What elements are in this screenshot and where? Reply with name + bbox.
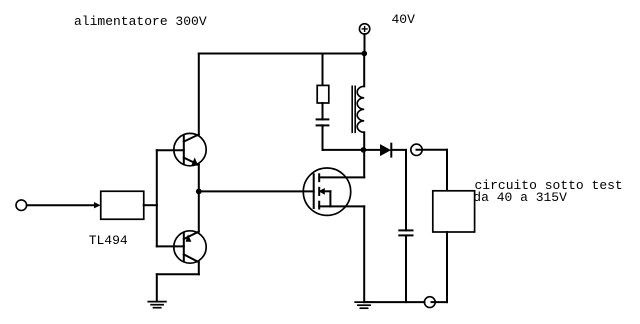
wire C1 bottom stem: [322, 125, 324, 149]
terminal output top: [411, 144, 422, 155]
wire gate lead: [199, 190, 314, 192]
mosfet Q3: [303, 168, 364, 215]
wire bottom rail: [364, 301, 424, 303]
wire source down: [363, 206, 365, 302]
ground left: [148, 302, 166, 308]
inductor L1: [357, 86, 364, 132]
capacitor C1 (snubber): [317, 119, 329, 125]
wire drain up: [363, 150, 365, 178]
svg-text:40V: 40V: [392, 12, 416, 27]
wire Q2 base lead: [157, 245, 184, 247]
terminal input: [16, 200, 27, 211]
wire base bus: [156, 150, 158, 246]
wire RC to diode node: [323, 149, 364, 151]
wire down to test box: [446, 150, 448, 191]
wire diode anode: [363, 149, 380, 151]
node diode junction: [361, 147, 367, 153]
wire top rail: [199, 53, 364, 55]
wire C2 bottom stem: [405, 235, 407, 302]
diode D1: [380, 144, 391, 157]
box U1 TL494: [101, 191, 144, 219]
wire TL494 output: [144, 204, 157, 206]
wire inductor bottom stem: [363, 132, 365, 150]
box circuito sotto test: [433, 191, 475, 232]
capacitor C2 (output): [399, 230, 412, 235]
node gate junction: [196, 189, 202, 195]
node top junction: [362, 51, 368, 57]
terminal +40V: [359, 24, 369, 34]
wire input: [27, 204, 96, 206]
wire inductor top stem: [363, 54, 365, 87]
wire Q1 collector: [198, 54, 200, 135]
svg-text:alimentatore 300V: alimentatore 300V: [74, 14, 207, 29]
wire bottom right corner: [432, 301, 448, 303]
wire Q1 base lead: [157, 149, 184, 151]
wire RC branch top stem: [322, 54, 324, 86]
arrow input: [94, 202, 101, 208]
wire test box bottom: [446, 232, 448, 302]
wire output cap branch: [405, 150, 407, 231]
terminal output bottom: [424, 297, 435, 308]
resistor R1: [317, 85, 329, 103]
wire Q2 collector to ground: [198, 262, 200, 274]
wire diode cathode: [391, 149, 406, 151]
wire emitter bus (Q1 emitter to Q2 emitter): [198, 165, 200, 232]
wire R to C: [322, 103, 324, 119]
ground right: [355, 302, 373, 308]
wire output top right: [417, 149, 448, 151]
wire inner tick bottom terminal: [432, 301, 436, 303]
transistor Q1 (NPN): [174, 133, 206, 165]
svg-text:da 40 a 315V: da 40 a 315V: [473, 190, 567, 205]
wire 40V stem: [364, 34, 366, 53]
transistor Q2 (PNP): [174, 231, 206, 263]
inductor core lines: [352, 86, 355, 132]
svg-text:TL494: TL494: [89, 233, 128, 248]
